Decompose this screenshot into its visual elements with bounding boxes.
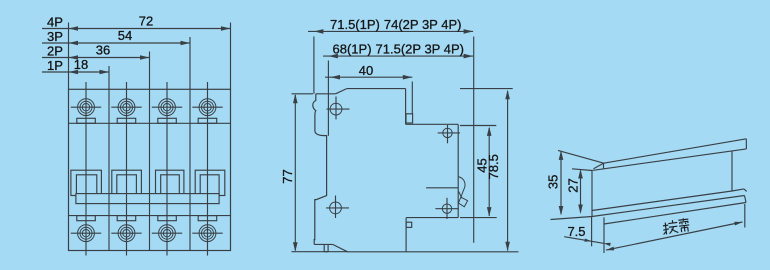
svg-text:18: 18 [74,57,88,72]
dimension 2P width 36 [42,55,150,60]
top terminal screws [71,99,223,116]
svg-text:36: 36 [96,43,110,58]
top terminal notches [77,118,217,123]
side dim 71.5(1P) 74(2P 3P 4P) [308,29,473,34]
svg-text:7.5: 7.5 [567,224,585,239]
side case parting line [426,187,458,189]
dim 7.5 [564,217,611,254]
bottom terminal notches [77,216,217,221]
svg-text:72: 72 [139,14,153,29]
rail bottom flange [592,189,747,228]
side dim 68(1P) 71.5(2P 3P 4P) [323,54,473,59]
latch pawl [458,177,468,207]
svg-text:77: 77 [280,169,295,183]
svg-text:71.5(1P)74(2P 3P 4P): 71.5(1P)74(2P 3P 4P) [330,17,461,32]
dimension 4P width 72 [42,26,231,31]
dim 27 [572,169,592,214]
terminal zone lines [69,123,231,215]
rail length dim (as needed) [606,222,743,251]
breaker body outline [69,89,231,250]
side view dimension texts [280,17,501,184]
svg-text:35: 35 [546,175,561,189]
side dim 40 [325,75,412,80]
mounting hole bottom [326,196,349,219]
dim 45 vertical [460,126,497,218]
top step box [406,114,413,123]
tie bar [76,194,219,204]
rail web [592,151,732,217]
svg-text:4P: 4P [47,14,63,29]
svg-text:54: 54 [118,28,132,43]
text an xu (as needed) [662,218,690,235]
dim 78.5 vertical [406,89,518,252]
toggle surrounds and handles [71,170,225,195]
rail dimension texts [546,175,586,239]
svg-text:1P: 1P [47,58,63,73]
svg-text:3P: 3P [47,29,63,44]
svg-text:40: 40 [359,63,373,78]
side extension lines top [314,37,474,243]
dimension 3P width 54 [42,41,190,46]
bottom terminal screws [71,225,223,242]
side terminal screw top [438,125,460,143]
dimension 1P width 18 [42,70,109,75]
pole center lines [86,82,208,256]
side terminal screw bottom [435,198,458,219]
din clip tab [324,244,328,251]
front view extension lines [69,23,231,90]
svg-text:2P: 2P [47,43,63,58]
module boundary lines [109,89,190,250]
dim 35 [551,150,605,219]
bottom step box [406,222,412,227]
mounting hole top [327,97,350,120]
svg-text:78.5: 78.5 [486,154,501,179]
front view labels and numbers [47,14,153,73]
dim 77 vertical [292,94,349,252]
side body outline [313,89,458,252]
svg-text:68(1P)71.5(2P 3P 4P): 68(1P)71.5(2P 3P 4P) [333,42,464,57]
rail top flange [592,139,746,171]
svg-text:27: 27 [565,178,580,192]
